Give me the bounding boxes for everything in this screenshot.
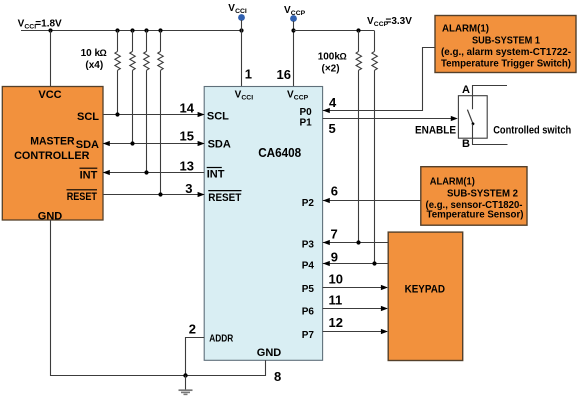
IC U1 CA6408 bbox=[204, 87, 322, 361]
svg-text:Temperature Sensor): Temperature Sensor) bbox=[427, 209, 524, 221]
wire P0 to ALARM SUB-SYSTEM 1 bbox=[323, 48, 435, 111]
svg-text:16: 16 bbox=[277, 67, 291, 82]
svg-text:P2: P2 bbox=[302, 198, 315, 209]
ALARM SUB-SYSTEM 2 box bbox=[421, 167, 527, 226]
svg-text:ADDR: ADDR bbox=[209, 332, 233, 344]
svg-text:6: 6 bbox=[331, 184, 338, 199]
svg-text:11: 11 bbox=[329, 293, 343, 308]
svg-text:KEYPAD: KEYPAD bbox=[405, 283, 445, 295]
svg-text:Controlled switch: Controlled switch bbox=[493, 125, 571, 137]
svg-text:ALARM(1): ALARM(1) bbox=[442, 23, 489, 35]
svg-text:CONTROLLER: CONTROLLER bbox=[14, 150, 89, 162]
wire P3 to KEYPAD bbox=[323, 242, 389, 244]
junction resistor R5 top bbox=[356, 28, 360, 32]
resistor 10k #2 bbox=[130, 31, 135, 144]
wire P6 to KEYPAD bbox=[323, 308, 387, 310]
svg-text:SCL: SCL bbox=[77, 111, 99, 123]
wire pin1 from VCCI node to chip bbox=[241, 20, 243, 87]
junction resistor R3 top bbox=[144, 28, 148, 32]
wire ADDR bbox=[186, 338, 205, 376]
svg-text:4: 4 bbox=[329, 95, 337, 110]
svg-text:P7: P7 bbox=[302, 330, 315, 341]
wire P5 to KEYPAD bbox=[323, 287, 387, 289]
wire SCL bbox=[103, 114, 204, 116]
svg-text:(×2): (×2) bbox=[322, 64, 340, 75]
svg-text:RESET: RESET bbox=[208, 192, 241, 204]
wire VCCI rail bbox=[21, 30, 242, 32]
junction resistor R1 top bbox=[115, 28, 119, 32]
wire RESET bbox=[103, 194, 204, 196]
svg-text:P3: P3 bbox=[302, 240, 315, 251]
wire GND rail bottom bbox=[51, 220, 266, 376]
wire P7 to KEYPAD bbox=[323, 331, 387, 333]
ground bbox=[185, 376, 187, 390]
junction on VCCI rail at VCC riser bbox=[48, 28, 52, 32]
resistor 10k #4 bbox=[158, 31, 163, 195]
svg-text:ALARM(1): ALARM(1) bbox=[430, 176, 475, 188]
svg-text:CCP: CCP bbox=[294, 95, 309, 102]
wire INT bbox=[103, 172, 204, 174]
junction resistor R2 top bbox=[130, 28, 134, 32]
svg-text:MASTER: MASTER bbox=[30, 135, 74, 147]
junction VCCP rail start bbox=[291, 28, 295, 32]
svg-text:INT: INT bbox=[207, 169, 225, 181]
svg-text:CCI: CCI bbox=[235, 8, 247, 15]
svg-text:3: 3 bbox=[185, 181, 192, 196]
svg-text:SDA: SDA bbox=[208, 139, 231, 151]
svg-text:P1: P1 bbox=[299, 118, 312, 129]
junction resistor R4 top bbox=[158, 28, 162, 32]
svg-text:B: B bbox=[462, 138, 470, 150]
svg-text:1: 1 bbox=[245, 67, 252, 82]
svg-text:8: 8 bbox=[274, 369, 281, 384]
svg-text:15: 15 bbox=[180, 129, 194, 144]
resistor 100k #2 bbox=[372, 31, 377, 263]
svg-text:ENABLE: ENABLE bbox=[415, 125, 456, 137]
resistor 10k #3 bbox=[144, 30, 149, 172]
svg-text:P4: P4 bbox=[302, 261, 315, 272]
svg-text:CA6408: CA6408 bbox=[258, 145, 301, 160]
svg-text:(e.g., alarm system-CT1722-: (e.g., alarm system-CT1722- bbox=[441, 46, 571, 58]
svg-text:SDA: SDA bbox=[76, 139, 99, 151]
resistor 100k #1 bbox=[356, 31, 361, 243]
svg-text:5: 5 bbox=[329, 121, 336, 136]
svg-text:P0: P0 bbox=[299, 107, 312, 118]
svg-text:10 k: 10 k bbox=[81, 48, 101, 59]
MASTER CONTROLLER box bbox=[2, 87, 103, 221]
svg-text:9: 9 bbox=[331, 249, 338, 264]
svg-text:=3.3V: =3.3V bbox=[386, 16, 413, 27]
wire P2 to ALARM SUB-SYSTEM 2 bbox=[323, 200, 421, 202]
switch lever bbox=[467, 110, 473, 124]
svg-text:7: 7 bbox=[331, 227, 338, 242]
svg-text:CCI: CCI bbox=[241, 95, 253, 102]
wire VCCP rail bbox=[294, 30, 375, 32]
svg-text:=1.8V: =1.8V bbox=[35, 19, 62, 30]
svg-text:Temperature Trigger Switch): Temperature Trigger Switch) bbox=[441, 57, 571, 69]
svg-text:INT: INT bbox=[80, 169, 98, 181]
svg-text:10: 10 bbox=[329, 272, 343, 287]
controlled switch box bbox=[458, 96, 487, 139]
svg-text:SUB-SYSTEM 1: SUB-SYSTEM 1 bbox=[472, 34, 540, 46]
svg-text:Ω: Ω bbox=[340, 52, 347, 62]
svg-text:100k: 100k bbox=[318, 52, 341, 63]
wire P1 ENABLE bbox=[323, 118, 457, 120]
svg-text:2: 2 bbox=[189, 321, 196, 336]
junction VCCI rail end bbox=[239, 28, 243, 32]
wire VCC riser to MASTER CONTROLLER bbox=[50, 31, 52, 87]
svg-text:14: 14 bbox=[180, 101, 195, 116]
svg-text:A: A bbox=[462, 84, 470, 96]
svg-text:VCC: VCC bbox=[38, 89, 61, 101]
wire SDA bbox=[103, 143, 204, 145]
wire P4 to KEYPAD bbox=[323, 263, 389, 265]
svg-text:SCL: SCL bbox=[207, 110, 229, 122]
svg-text:GND: GND bbox=[257, 347, 282, 359]
svg-text:RESET: RESET bbox=[67, 191, 98, 203]
ALARM SUB-SYSTEM 1 box bbox=[435, 16, 576, 73]
wire pin16 from VCCP node to chip bbox=[293, 21, 295, 87]
svg-text:12: 12 bbox=[329, 315, 343, 330]
svg-text:(x4): (x4) bbox=[85, 60, 103, 71]
svg-text:13: 13 bbox=[180, 159, 194, 174]
svg-text:Ω: Ω bbox=[100, 48, 107, 58]
KEYPAD box bbox=[388, 232, 463, 360]
svg-text:SUB-SYSTEM 2: SUB-SYSTEM 2 bbox=[447, 188, 518, 200]
resistor 10k #1 bbox=[115, 30, 120, 114]
svg-text:P6: P6 bbox=[302, 307, 315, 318]
svg-text:P5: P5 bbox=[302, 284, 315, 295]
